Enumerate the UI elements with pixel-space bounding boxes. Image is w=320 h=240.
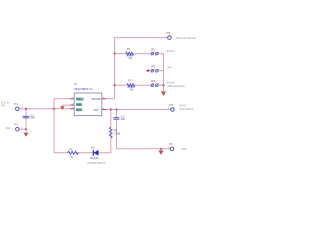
connector P5 drop monitor (168, 36, 172, 40)
jumper JP2 (151, 69, 159, 72)
svg-text:D1: D1 (91, 145, 95, 149)
junction node branch3 rail (162, 84, 164, 86)
svg-text:615mA: 615mA (167, 50, 175, 53)
svg-text:GND: GND (5, 127, 11, 130)
resistor R1 (126, 52, 134, 55)
svg-text:1uF: 1uF (121, 117, 126, 121)
wire feedback loop down left across bottom (54, 110, 111, 153)
wire input cap branch down (25, 109, 27, 133)
svg-text:Drop-Out Monitor: Drop-Out Monitor (176, 36, 196, 40)
capacitor C1 (23, 116, 30, 118)
connector P1 (16, 107, 20, 111)
resistor R2 (127, 84, 135, 87)
svg-text:1uF: 1uF (30, 116, 35, 120)
svg-text:U1: U1 (74, 82, 78, 86)
U1 pin stubs (70, 99, 106, 110)
ground at jumper rail (161, 92, 166, 96)
junction node P4 ground stub (160, 148, 162, 150)
svg-text:1: 1 (22, 106, 24, 109)
svg-text:R2: R2 (128, 79, 132, 83)
svg-text:P1: P1 (14, 102, 18, 106)
resistor R4 (68, 151, 79, 154)
svg-text:VIN: VIN (76, 98, 80, 101)
svg-text:1.05k: 1.05k (114, 132, 121, 136)
junction node P2 ground (25, 128, 27, 130)
junction node VIN branch (53, 108, 55, 110)
wire jumper branch 1 (115, 53, 164, 55)
svg-text:ON/OFF: ON/OFF (92, 98, 102, 101)
wire jumper branch 3 (115, 84, 164, 86)
U1 pin label VIN (76, 98, 84, 101)
wire jumper branch 2 to ground rail (159, 70, 164, 72)
ground at U1 GND pin (60, 106, 65, 110)
svg-text:P3: P3 (169, 103, 173, 107)
svg-text:JP2: JP2 (151, 65, 156, 69)
connector P2 (16, 127, 20, 131)
svg-text:OUT: OUT (93, 109, 99, 112)
U1 pin label GND (76, 103, 82, 106)
svg-text:USB Application: USB Application (167, 85, 186, 88)
svg-text:615mA: 615mA (167, 82, 175, 85)
capacitor C2 (113, 118, 119, 120)
connector P3 VOUT (171, 108, 175, 112)
junction node VOUT loop tap (110, 108, 112, 110)
junction node branch1 tap (113, 52, 115, 54)
wire output cap branch to P4 ground (117, 110, 171, 149)
wire P2 ground lead (19, 128, 26, 130)
svg-text:R1: R1 (127, 47, 131, 51)
wire VIN branch up to U1 pin1 (54, 99, 74, 153)
junction node branch3 tap (113, 84, 115, 86)
jumper JP3 (151, 84, 159, 87)
junction node at P1 cap tap (25, 108, 27, 110)
connector P4 GND (170, 147, 174, 151)
svg-text:VOUT: VOUT (179, 105, 186, 108)
resistor R3 vertical (110, 127, 113, 138)
ground near P4 (158, 151, 163, 155)
svg-text:CD1206-S01575: CD1206-S01575 (87, 162, 106, 165)
svg-text:BAS16: BAS16 (90, 156, 99, 160)
op-amp U1 regulator body (74, 93, 102, 116)
ground below P2 (24, 133, 29, 137)
svg-text:GND: GND (76, 104, 82, 107)
diode D1 (93, 150, 98, 156)
wire VOUT line to P3 (102, 109, 171, 111)
svg-text:5.0V 150mA: 5.0V 150mA (179, 108, 193, 111)
wire VIN line from P1 to U1 pin3 (19, 108, 74, 110)
svg-text:GND: GND (181, 148, 187, 151)
wire jumper ground rail (163, 54, 165, 92)
wire ground stub near P4 (160, 149, 162, 151)
svg-text:DLY: DLY (76, 109, 81, 112)
junction node VOUT cap tap (115, 108, 117, 110)
svg-text:R4: R4 (69, 147, 73, 151)
wire U1 GND pin stub (62, 105, 74, 106)
jumper JP1 (151, 52, 159, 55)
svg-text:1k: 1k (70, 155, 73, 159)
wire monitor pin up and over to P5 (102, 38, 168, 99)
svg-text:JP1: JP1 (151, 47, 156, 51)
svg-text:40V: 40V (1, 105, 6, 108)
U1 pin label DLY (76, 108, 82, 111)
svg-text:P2: P2 (14, 123, 18, 127)
svg-text:P5: P5 (166, 31, 170, 35)
svg-text:LM9076BMA-5.0: LM9076BMA-5.0 (74, 88, 93, 91)
no-connect arrow at JP2 (147, 70, 151, 72)
svg-text:JP3: JP3 (151, 79, 156, 83)
svg-text:P4: P4 (169, 142, 173, 146)
svg-text:OFF: OFF (167, 66, 172, 69)
